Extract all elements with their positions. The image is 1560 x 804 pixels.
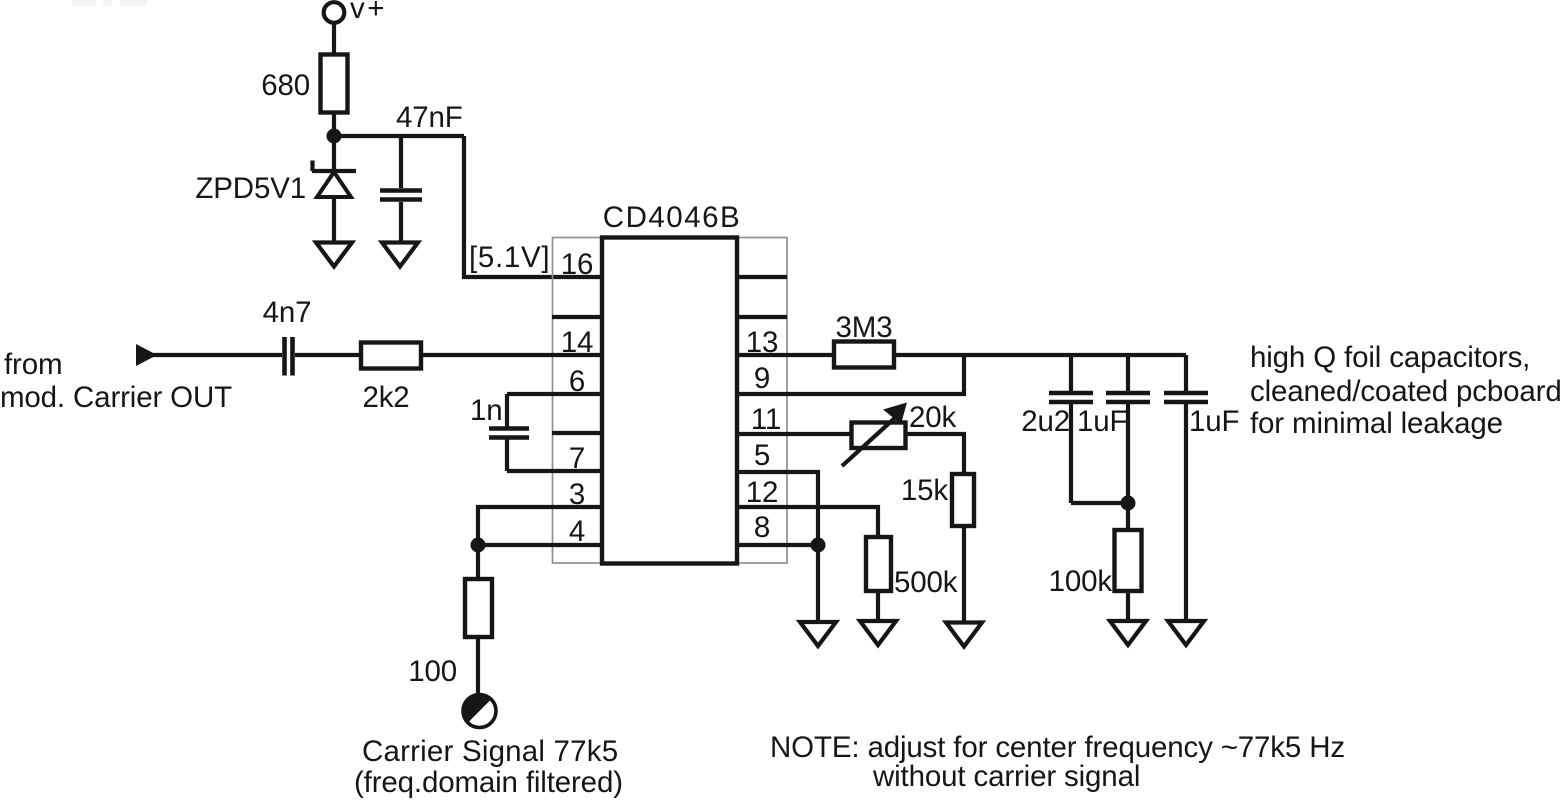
svg-text:1uF: 1uF xyxy=(1077,405,1127,438)
svg-text:for minimal leakage: for minimal leakage xyxy=(1250,407,1503,440)
wire pin 14 xyxy=(421,353,602,357)
wire pin 6 xyxy=(507,392,602,396)
svg-text:16: 16 xyxy=(561,248,594,281)
resistor 2k2 xyxy=(361,343,421,369)
capacitor 1uF first xyxy=(1106,355,1150,531)
wire xyxy=(332,112,336,171)
svg-text:12: 12 xyxy=(746,476,779,509)
svg-text:from: from xyxy=(4,348,62,381)
pin divider xyxy=(737,275,787,279)
faint cropped text remnants top-left xyxy=(72,0,147,6)
capacitor 1uF second xyxy=(1164,355,1208,621)
wire xyxy=(876,591,880,620)
resistor 15k xyxy=(952,474,974,526)
wire xyxy=(962,526,966,621)
signal generator carrier xyxy=(463,694,496,727)
svg-text:[5.1V]: [5.1V] xyxy=(469,241,550,274)
svg-text:5: 5 xyxy=(754,439,770,472)
wire pin 12 xyxy=(737,507,878,538)
wire pin 3 xyxy=(478,507,602,545)
IC U1 body CD4046B xyxy=(602,238,737,564)
svg-text:mod. Carrier OUT: mod. Carrier OUT xyxy=(0,381,232,414)
pin divider xyxy=(552,315,602,319)
ground xyxy=(1110,621,1146,645)
ground xyxy=(1168,621,1204,645)
wire pin 7 xyxy=(507,469,602,473)
svg-text:4n7: 4n7 xyxy=(263,296,312,329)
resistor 100k xyxy=(1115,530,1142,591)
resistor 500k xyxy=(866,537,891,591)
svg-text:100: 100 xyxy=(408,655,457,688)
junction node xyxy=(811,538,826,553)
svg-text:ZPD5V1: ZPD5V1 xyxy=(195,172,306,205)
potentiometer 20k xyxy=(842,403,907,467)
wire xyxy=(476,545,480,580)
ground xyxy=(800,622,836,646)
wire xyxy=(816,545,820,621)
svg-text:without carrier signal: without carrier signal xyxy=(872,760,1140,793)
wire 5.1V net xyxy=(464,136,602,277)
IC U1 outer pin outline xyxy=(553,238,788,564)
wire pin 8 xyxy=(737,543,818,547)
junction node xyxy=(1121,496,1136,511)
wire output net xyxy=(893,353,1186,357)
wire xyxy=(905,434,964,474)
svg-text:47nF: 47nF xyxy=(396,101,463,134)
resistor 3M3 xyxy=(834,342,894,368)
svg-text:3M3: 3M3 xyxy=(836,311,893,344)
resistor 680 xyxy=(321,55,348,113)
svg-text:8: 8 xyxy=(754,511,770,544)
svg-text:high Q foil capacitors,: high Q foil capacitors, xyxy=(1250,341,1530,374)
capacitor 4n7 xyxy=(285,337,293,376)
wire xyxy=(152,353,282,357)
wire xyxy=(332,23,336,56)
svg-text:15k: 15k xyxy=(901,474,949,507)
wire xyxy=(1126,591,1130,621)
wire xyxy=(334,134,464,138)
junction node xyxy=(327,129,342,144)
svg-text:680: 680 xyxy=(261,69,310,102)
ground xyxy=(860,621,896,645)
svg-text:2u2: 2u2 xyxy=(1021,405,1070,438)
ground xyxy=(946,623,982,647)
wire pin 11 xyxy=(737,432,853,436)
svg-text:1uF: 1uF xyxy=(1189,405,1239,438)
svg-text:cleaned/coated pcboard: cleaned/coated pcboard xyxy=(1250,375,1560,408)
svg-text:v+: v+ xyxy=(350,0,387,25)
wire pin 13 xyxy=(737,353,833,357)
svg-text:(freq.domain filtered): (freq.domain filtered) xyxy=(354,766,623,799)
wire pin 5 xyxy=(737,472,818,545)
power terminal V+ xyxy=(324,2,345,23)
ground xyxy=(382,243,418,267)
ground xyxy=(316,243,352,267)
svg-text:CD4046B: CD4046B xyxy=(603,201,741,234)
capacitor 2u2 xyxy=(1049,355,1093,503)
svg-text:2k2: 2k2 xyxy=(362,381,409,414)
svg-text:11: 11 xyxy=(751,403,781,436)
capacitor 47nF xyxy=(380,136,422,242)
zener diode ZPD5V1 xyxy=(312,161,356,243)
svg-text:1n: 1n xyxy=(470,394,503,427)
svg-text:100k: 100k xyxy=(1049,565,1113,598)
svg-text:Carrier Signal 77k5: Carrier Signal 77k5 xyxy=(362,735,618,768)
wire xyxy=(1071,501,1128,505)
wire pin 9 xyxy=(737,355,964,394)
junction node xyxy=(471,538,486,553)
svg-text:9: 9 xyxy=(754,362,770,395)
svg-text:20k: 20k xyxy=(909,401,957,434)
wire xyxy=(295,353,361,357)
wire pin 4 xyxy=(478,543,602,547)
input arrow xyxy=(136,344,157,366)
pin divider xyxy=(552,431,602,435)
pin divider xyxy=(737,315,787,319)
wire xyxy=(476,637,480,695)
capacitor 1n xyxy=(489,394,529,471)
svg-text:500k: 500k xyxy=(894,566,958,599)
resistor 100 xyxy=(465,579,492,637)
